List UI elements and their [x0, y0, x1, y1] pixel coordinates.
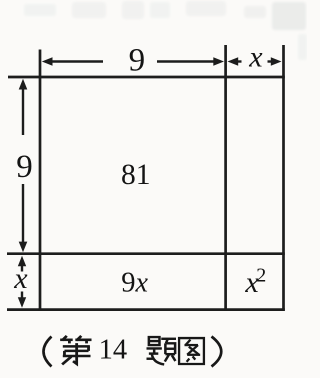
- svg-text:2: 2: [256, 265, 266, 287]
- svg-text:9: 9: [129, 43, 146, 79]
- svg-text:x: x: [248, 41, 263, 74]
- svg-text:9x: 9x: [121, 267, 148, 298]
- svg-text:9: 9: [16, 149, 33, 185]
- svg-text:81: 81: [121, 159, 151, 191]
- svg-text:14: 14: [99, 335, 128, 366]
- svg-text:x: x: [13, 262, 28, 295]
